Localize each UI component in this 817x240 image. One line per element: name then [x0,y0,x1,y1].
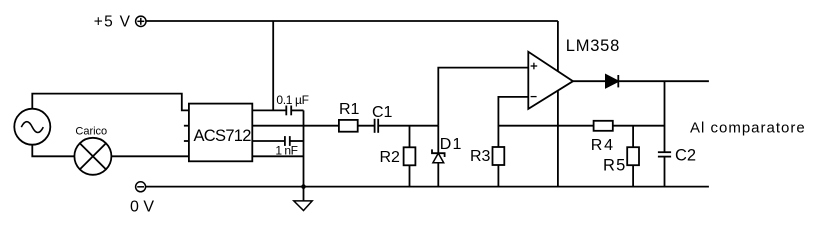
svg-text:+5 V: +5 V [94,13,132,30]
capacitor C2 [658,152,671,186]
svg-text:R5: R5 [603,157,627,175]
svg-text:R1: R1 [339,101,360,118]
wire +5V drop to ACS712 VCC [272,21,274,110]
wire lamp to ACS712 pin4 [111,155,188,157]
wire R1 to C1 [358,125,375,127]
svg-text:LM358: LM358 [566,37,620,55]
wire op-amp output [573,80,606,82]
ACS712 left pin stub 3 [184,140,189,142]
wire output node vertical [664,81,666,152]
junction dot [301,184,306,189]
svg-text:R2: R2 [380,149,401,166]
wire bypass rail vertical [303,110,305,186]
resistor R4 [594,121,613,131]
svg-text:0.1 µF: 0.1 µF [276,93,308,107]
lamp Carico [74,138,111,175]
wire source top to ACS712 pin1 [32,94,189,111]
capacitor 0.1 uF [286,106,303,116]
svg-text:R4: R4 [591,137,615,154]
svg-text:Al comparatore: Al comparatore [690,119,806,136]
IC ACS712 box [189,104,252,162]
wire R4 to output node [613,125,665,127]
wire node A to op-amp non-inverting input [438,68,528,126]
resistor R2 [404,126,416,187]
svg-text:R3: R3 [470,148,491,165]
wire diode to output end [618,80,709,82]
ACS712 left pin stub 2 [184,125,189,127]
svg-text:C2: C2 [675,147,696,165]
diode D2 [606,75,618,87]
capacitor 1 nF [285,136,304,146]
wire 0V rail [145,186,709,188]
wire source bottom to lamp [32,145,74,157]
svg-text:ACS712: ACS712 [194,127,252,145]
0 V terminal [136,182,146,192]
wire C1 to node A [378,125,438,127]
wire +5V rail [146,20,558,22]
wire VIOUT pin to R1 [252,125,339,127]
wire GND pin [252,155,303,157]
resistor R1 [339,120,358,132]
wire FILTER pin to capacitor [252,140,285,142]
capacitor C1 [375,119,379,133]
svg-text:C1: C1 [372,104,393,121]
ground [294,187,312,211]
resistor R5 [627,126,639,187]
wire feedback node to R4 [498,125,593,127]
resistor R3 [493,147,505,187]
+5 V terminal [136,16,146,26]
wire VCC pin to capacitor [252,109,286,111]
wire inverting input [498,97,528,147]
zener diode D1 [432,126,445,187]
op-amp U1 [528,52,573,109]
svg-text:0 V: 0 V [130,199,154,216]
svg-text:D1: D1 [440,136,463,153]
svg-text:Carico: Carico [75,126,107,138]
wire op-amp V- to 0V rail [557,90,559,186]
wire +5V drop to op-amp V+ [557,21,559,71]
AC source [14,109,50,145]
